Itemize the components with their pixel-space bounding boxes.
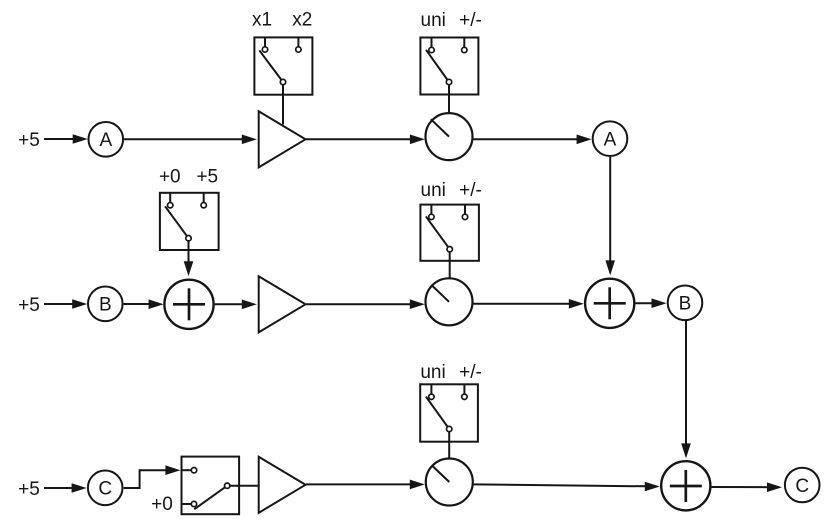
svg-text:uni: uni [420, 362, 445, 383]
summer S3 (row 3 output mix) [661, 461, 710, 510]
SW6 contact uni [429, 394, 434, 399]
SW6 contact stub uni [430, 384, 432, 394]
wire attenuator P2 to summer S2 with arrowhead [473, 299, 583, 309]
svg-text:+0: +0 [159, 167, 181, 188]
svg-text:A: A [604, 130, 617, 151]
svg-text:+5: +5 [18, 295, 40, 316]
SW5 contact upper [191, 468, 196, 473]
wire node A output down to summer S2 with arrowhead [605, 157, 615, 276]
SW1 contact x1 [262, 47, 267, 52]
wire summer S3 to node C output with arrowhead [712, 482, 782, 492]
SW1 contact x2 [296, 47, 301, 52]
SW4 switch arm [426, 216, 450, 249]
op-amp U2 (row 2 amplifier) [259, 276, 306, 332]
SW4 contact stub +/- [464, 205, 466, 215]
SW2 contact stub +/- [463, 38, 465, 48]
SW4 pole contact [447, 247, 452, 252]
wire node C stepping up to switch SW5 with arrowhead [124, 465, 181, 488]
SW5 switch arm [194, 486, 227, 510]
SW3 contact +0 [168, 203, 173, 208]
wire node B output down to summer S3 with arrowhead [681, 321, 691, 458]
node C (input) [88, 471, 123, 506]
wire amp U3 to attenuator P3 with arrowhead [306, 480, 425, 490]
wire attenuator P3 to summer S3 with arrowhead [473, 482, 660, 492]
wire summer S1 to amp U2 with arrowhead [215, 300, 257, 310]
summer S2 (row 2 output mix) [585, 279, 634, 328]
wire +5 to node B input with arrowhead [44, 299, 87, 309]
SW5 contact lower [191, 501, 196, 506]
svg-text:uni: uni [421, 10, 446, 31]
op-amp U3 (row 3 amplifier) [259, 457, 306, 513]
attenuator pot P3 (row 3) [426, 459, 473, 506]
wire +5 to node A input with arrowhead [44, 134, 88, 144]
node A (output) [593, 121, 628, 156]
SW4 contact uni [429, 214, 434, 219]
switch SW2 (uni/bipolar row 1) box [420, 38, 478, 95]
SW4 contact +/- [462, 214, 467, 219]
wire amp U1 to attenuator P1 with arrowhead [306, 135, 425, 145]
SW1 contact stub x1 [264, 37, 266, 46]
svg-text:uni: uni [421, 180, 446, 201]
SW4 contact stub uni [430, 205, 432, 215]
wire SW3 pole down to summer S1 with arrowhead [184, 241, 194, 276]
wire node B to summer S1 with arrowhead [124, 299, 164, 309]
svg-text:+5: +5 [196, 167, 218, 188]
svg-text:B: B [99, 295, 112, 316]
svg-text:A: A [99, 130, 112, 151]
SW1 contact stub x2 [297, 37, 299, 46]
svg-text:+5: +5 [18, 130, 40, 151]
attenuator pot P2 (row 2) [426, 278, 473, 325]
svg-text:x1: x1 [252, 10, 272, 31]
SW6 switch arm [426, 397, 449, 429]
svg-text:x2: x2 [292, 10, 312, 31]
SW2 switch arm [426, 50, 449, 82]
SW3 contact +5 [201, 203, 206, 208]
svg-text:+5: +5 [18, 479, 40, 500]
svg-text:C: C [795, 476, 809, 497]
SW3 pole contact [186, 236, 191, 241]
svg-text:+/-: +/- [459, 362, 482, 383]
SW2 pole contact [446, 79, 451, 84]
SW3 switch arm [165, 206, 188, 238]
switch SW1 (x1/x2 gain select) box [254, 37, 312, 94]
wire SW2 pole down to attenuator P1 [448, 85, 450, 114]
SW3 contact stub +0 [169, 193, 171, 203]
node A (input) [89, 122, 124, 157]
wire summer S2 to node B output with arrowhead [635, 298, 666, 308]
SW2 contact stub uni [431, 38, 433, 48]
svg-text:+/-: +/- [459, 10, 482, 31]
switch SW6 (uni/bipolar row 3) box [420, 384, 478, 441]
SW6 contact +/- [462, 394, 467, 399]
node C (output) [785, 468, 820, 503]
SW2 contact uni [429, 47, 434, 52]
switch SW5 (row 3 input select) box [182, 457, 240, 515]
attenuator pot P1 (row 1) [426, 113, 473, 160]
svg-text:B: B [679, 294, 692, 315]
summer S1 (row 2) [164, 280, 213, 329]
wire SW4 pole down to attenuator P2 [449, 252, 451, 279]
SW6 pole contact [447, 426, 452, 431]
wire SW6 pole down to attenuator P3 [448, 432, 450, 458]
SW5 pole contact [225, 483, 230, 488]
svg-text:+/-: +/- [459, 180, 482, 201]
op-amp U1 (row 1 amplifier) [259, 111, 306, 167]
SW5 contact stub lower (+0) [182, 503, 192, 505]
wire amp U2 to attenuator P2 with arrowhead [306, 299, 425, 309]
SW2 contact +/- [462, 47, 467, 52]
wire +5 to node C input with arrowhead [44, 483, 87, 493]
wire node A to amp U1 with arrowhead [124, 135, 257, 145]
SW5 contact stub upper (from C) [182, 469, 192, 471]
switch SW3 (+0/+5 offset select) box [160, 193, 219, 250]
wire SW1 pole down to amp U1 [282, 85, 284, 125]
svg-text:C: C [98, 479, 112, 500]
switch SW4 (uni/bipolar row 2) box [420, 205, 479, 261]
wire attenuator P1 to node A output with arrowhead [473, 135, 591, 145]
svg-text:+0: +0 [151, 494, 173, 515]
SW6 contact stub +/- [463, 384, 465, 394]
node B (output) [668, 286, 703, 321]
wire SW5 pole to amp U3 [230, 485, 260, 487]
SW1 switch arm [259, 50, 283, 82]
SW3 contact stub +5 [203, 193, 205, 203]
SW1 pole contact [280, 79, 285, 84]
node B (input) [88, 287, 123, 322]
